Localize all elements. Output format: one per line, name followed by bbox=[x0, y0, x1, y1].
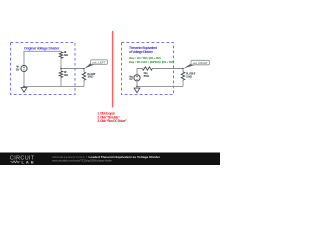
svg-text:www.circuitlab.com/circuit/733: www.circuitlab.com/circuit/7332kqa2568/v… bbox=[52, 159, 112, 163]
svg-text:1.5 kΩ: 1.5 kΩ bbox=[186, 74, 193, 78]
svg-text:1 kΩ: 1 kΩ bbox=[64, 73, 69, 77]
svg-text:Original Voltage Divider: Original Voltage Divider bbox=[24, 46, 60, 50]
svg-text:out_RIGHT: out_RIGHT bbox=[193, 61, 208, 65]
svg-text:3. Click “Run DC Solver”: 3. Click “Run DC Solver” bbox=[97, 119, 127, 123]
svg-text:1 kΩ: 1 kΩ bbox=[64, 53, 69, 57]
svg-text:out_LEFT: out_LEFT bbox=[92, 60, 106, 64]
svg-text:Req = R1 // R2 = (R1*R2) / (R1: Req = R1 // R2 = (R1*R2) / (R1 + R2) bbox=[129, 60, 174, 64]
svg-text:1.5 kΩ: 1.5 kΩ bbox=[87, 75, 94, 79]
svg-text:LAB: LAB bbox=[22, 160, 35, 165]
svg-text:750 Ω: 750 Ω bbox=[143, 74, 150, 78]
svg-text:of Voltage Divider: of Voltage Divider bbox=[129, 50, 154, 54]
svg-text:6 V: 6 V bbox=[129, 77, 132, 81]
svg-text:12 V: 12 V bbox=[16, 67, 20, 71]
